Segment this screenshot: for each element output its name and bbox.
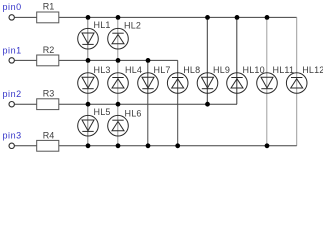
LED HL1 [78,28,99,49]
wire pin0 rail [15,16,297,18]
svg-text:HL3: HL3 [94,65,111,75]
terminal pin2 [9,102,14,107]
LED HL11 [257,73,278,94]
wire pin3 rail [15,145,297,147]
svg-text:HL11: HL11 [273,65,295,75]
junction dots rail0 [86,15,270,20]
svg-text:R3: R3 [43,89,55,99]
svg-text:R4: R4 [43,131,55,141]
svg-text:HL12: HL12 [302,65,323,75]
wire column 7 vertical [266,17,268,145]
wire column 3 vertical [147,60,149,145]
wire column 5 vertical [206,17,208,104]
terminal pin3 [9,143,14,148]
svg-text:pin2: pin2 [3,89,22,99]
svg-text:pin1: pin1 [3,45,22,55]
LED HL12 [286,73,307,94]
svg-text:pin3: pin3 [3,131,22,141]
junction dots rail1 [86,58,151,63]
terminal pin1 [9,58,14,63]
LED HL4 [108,73,129,94]
resistor R2 [37,45,59,66]
terminal pin0 [9,15,14,20]
LED HL10 [227,73,248,94]
wire pin1 rail end drop to HL8 [177,60,179,145]
svg-text:R2: R2 [43,45,55,55]
svg-text:R1: R1 [43,1,55,11]
svg-text:HL5: HL5 [94,107,111,117]
junction dots rail2 [86,102,210,107]
LED HL5 [78,115,99,136]
wire pin2 rail [15,103,237,105]
LED HL6 [108,115,129,136]
svg-text:HL4: HL4 [125,65,142,75]
resistor R1 [37,1,59,22]
svg-text:HL7: HL7 [154,65,171,75]
LED HL7 [138,73,159,94]
svg-text:HL8: HL8 [183,65,200,75]
wire column 2 vertical [117,17,119,145]
junction dots rail3 [86,143,270,148]
svg-text:HL1: HL1 [94,20,111,30]
wire column 1 vertical [87,17,89,145]
svg-text:HL10: HL10 [243,65,265,75]
wire pin1 rail [15,59,178,61]
LED HL2 [108,28,129,49]
svg-text:pin0: pin0 [3,2,22,12]
resistor R4 [37,131,59,152]
wire pin2 rail end rise to HL10 [236,17,238,104]
svg-text:HL6: HL6 [125,109,142,119]
svg-text:HL2: HL2 [124,21,141,31]
LED HL8 [167,73,188,94]
wire pin0 rail end drop to HL12 [296,17,298,145]
resistor R3 [37,89,59,110]
svg-text:HL9: HL9 [213,65,230,75]
LED HL9 [197,73,218,94]
LED HL3 [78,73,99,94]
